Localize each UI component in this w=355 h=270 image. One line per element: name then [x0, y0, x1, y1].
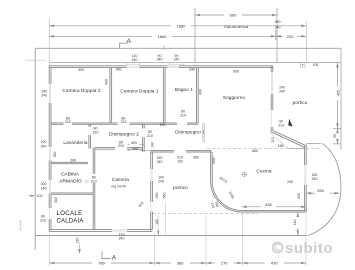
svg-text:Cucina: Cucina — [256, 168, 271, 173]
svg-text:Autorimessa: Autorimessa — [224, 24, 249, 29]
lot boundary left — [34, 48, 36, 250]
svg-text:120: 120 — [76, 238, 80, 244]
window CD1 top — [127, 66, 140, 67]
garage right wall — [276, 8, 278, 63]
svg-text:210: 210 — [121, 120, 127, 124]
diagonal wall — [271, 130, 306, 147]
window kitchen east — [305, 165, 306, 185]
svg-text:500: 500 — [233, 70, 239, 74]
svg-text:480: 480 — [275, 20, 281, 24]
circle at wall A end — [210, 156, 214, 160]
svg-text:380: 380 — [177, 260, 184, 265]
portico north wall — [151, 150, 212, 152]
svg-text:200: 200 — [212, 158, 216, 164]
svg-text:400: 400 — [199, 89, 203, 95]
arrow 180 dim down — [157, 231, 159, 236]
svg-text:100: 100 — [177, 159, 183, 163]
svg-text:400: 400 — [132, 147, 138, 151]
svg-text:210: 210 — [91, 179, 97, 183]
top wall (north, double) — [49, 66, 273, 68]
kitchen west wall — [211, 150, 213, 181]
svg-text:270: 270 — [221, 260, 228, 265]
svg-text:100: 100 — [37, 194, 43, 198]
boundary tick small — [163, 46, 165, 51]
svg-text:780: 780 — [98, 260, 105, 265]
svg-text:430: 430 — [155, 193, 159, 199]
column circle portico — [242, 172, 246, 176]
svg-text:mq 24,40: mq 24,40 — [111, 185, 126, 189]
dashed roof line portico/cucina — [207, 148, 321, 150]
dim extension line left — [48, 19, 50, 66]
svg-text:Camera: Camera — [112, 177, 130, 182]
svg-text:portico: portico — [293, 100, 308, 105]
lot boundary top — [35, 47, 341, 49]
svg-text:495: 495 — [337, 90, 341, 96]
bottom extension lines — [49, 214, 306, 267]
dim 430 kitchen — [242, 206, 307, 209]
svg-text:290: 290 — [70, 158, 76, 162]
svg-text:470: 470 — [271, 260, 278, 265]
svg-text:390: 390 — [116, 68, 122, 72]
tiny dim far left — [19, 221, 22, 229]
svg-text:Camera Doppia 2: Camera Doppia 2 — [62, 88, 101, 93]
bracket dim bagno window — [170, 63, 185, 66]
svg-text:220: 220 — [287, 34, 294, 39]
svg-text:400: 400 — [105, 79, 109, 85]
camera east wall (double) — [151, 152, 153, 232]
label Autorimessa — [215, 22, 258, 30]
svg-text:213: 213 — [278, 124, 284, 128]
svg-text:210: 210 — [118, 144, 124, 148]
lot boundary arc (rounded SE corner) — [308, 143, 341, 235]
svg-text:240: 240 — [41, 144, 47, 148]
svg-text:660: 660 — [252, 149, 258, 153]
svg-text:260: 260 — [317, 188, 324, 193]
svg-text:240: 240 — [287, 180, 293, 184]
soggiorno east wall — [271, 66, 273, 132]
svg-text:210: 210 — [65, 120, 71, 124]
window camera east — [151, 169, 152, 212]
svg-text:210: 210 — [147, 134, 153, 138]
svg-text:Camera Doppia 1: Camera Doppia 1 — [120, 89, 159, 94]
down arrow caldaia — [78, 249, 81, 254]
svg-text:140: 140 — [293, 220, 297, 226]
svg-text:95: 95 — [333, 134, 337, 138]
svg-text:110: 110 — [271, 137, 275, 143]
svg-text:CALDAIA: CALDAIA — [56, 219, 83, 225]
svg-text:240: 240 — [174, 58, 180, 62]
svg-text:400: 400 — [131, 141, 137, 145]
svg-text:240: 240 — [41, 94, 47, 98]
svg-text:240: 240 — [312, 177, 318, 181]
pillar east portico — [300, 63, 305, 67]
svg-text:400: 400 — [78, 68, 84, 72]
svg-text:140: 140 — [151, 142, 155, 148]
window bagno1 top — [168, 66, 179, 68]
window soggiorno east — [271, 72, 273, 94]
kitchen curved wall — [211, 181, 242, 212]
svg-text:360: 360 — [193, 156, 199, 160]
survey cross top-left — [25, 59, 46, 61]
window lavanderia west — [50, 147, 51, 161]
wall CD1|Bagno1 — [163, 68, 165, 123]
camera north wall — [95, 148, 143, 150]
camera west wall — [93, 148, 95, 230]
svg-text:240: 240 — [158, 180, 164, 184]
window camera south — [112, 230, 127, 231]
svg-text:Disimpegno 1: Disimpegno 1 — [175, 130, 205, 135]
subito watermark — [273, 240, 334, 257]
svg-text:240: 240 — [189, 68, 195, 72]
lavanderia south wall — [51, 162, 88, 163]
kitchen top-right stub — [306, 143, 321, 145]
svg-text:subito: subito — [285, 240, 333, 257]
svg-text:300: 300 — [53, 152, 57, 158]
svg-text:430: 430 — [297, 193, 301, 199]
door caldaia west — [49, 208, 51, 219]
dim 95 rot — [333, 128, 341, 144]
svg-text:100: 100 — [313, 63, 319, 67]
kitchen east wall — [305, 145, 307, 213]
corridor top wall — [51, 123, 198, 124]
lavanderia east wall — [89, 124, 91, 148]
camera south wall (double) — [49, 230, 152, 232]
svg-text:210: 210 — [40, 219, 46, 223]
svg-text:240: 240 — [279, 90, 285, 94]
dim 260 — [306, 192, 339, 195]
window cabina west — [50, 180, 51, 194]
dim 495 rot — [336, 63, 339, 129]
svg-text:240: 240 — [275, 25, 281, 29]
kitchen north edge solid — [288, 147, 306, 149]
svg-text:1880: 1880 — [177, 23, 187, 28]
window CD2 west — [49, 84, 51, 103]
bottom dim line — [49, 262, 306, 265]
svg-text:Disimpegno 2: Disimpegno 2 — [109, 131, 139, 136]
svg-text:ARMADIO: ARMADIO — [59, 179, 82, 185]
svg-text:190: 190 — [160, 123, 166, 127]
svg-text:300: 300 — [54, 197, 58, 203]
wall Bagno1|Soggiorno — [197, 68, 199, 123]
svg-text:A: A — [112, 254, 117, 261]
caldaia top wall — [51, 193, 93, 194]
svg-text:Soggiorno: Soggiorno — [223, 95, 246, 100]
dim hypotenuse diagonal — [270, 133, 289, 149]
svg-text:240: 240 — [157, 57, 163, 61]
svg-text:CABINA: CABINA — [61, 172, 80, 178]
dims 400 400 disimpegno2 — [128, 145, 151, 151]
bracket dim CD1 window — [127, 63, 140, 66]
svg-text:210: 210 — [180, 113, 186, 117]
lot boundary right — [340, 48, 342, 150]
wall CD2|CD1 — [110, 68, 112, 123]
extension kitchen east col — [305, 22, 307, 63]
garage left wall — [194, 8, 196, 63]
dim 600 — [195, 14, 277, 17]
dim 140 right — [297, 212, 300, 236]
section marker A top — [120, 43, 127, 48]
wall disimpegno1|soggiorno light — [203, 123, 204, 143]
section marker A bottom — [102, 252, 111, 259]
entrance triangle soggiorno — [288, 119, 292, 127]
svg-text:180: 180 — [155, 219, 159, 225]
lot boundary bottom — [35, 235, 307, 237]
svg-text:Bagno 1: Bagno 1 — [175, 87, 193, 92]
svg-text:240: 240 — [132, 58, 138, 62]
svg-text:138: 138 — [278, 144, 284, 148]
svg-text:Lavanderia: Lavanderia — [63, 140, 87, 145]
dim 1880 — [49, 25, 306, 28]
dim 1660 — [49, 30, 306, 40]
door soggiorno east — [271, 110, 273, 127]
wall disimpegno divider — [143, 124, 145, 152]
dashed roof line portico south — [153, 213, 259, 215]
svg-text:A: A — [126, 38, 131, 45]
svg-text:portico: portico — [173, 185, 188, 190]
svg-text:240: 240 — [157, 160, 163, 164]
kitchen south wall — [242, 210, 307, 212]
svg-text:1660: 1660 — [158, 34, 168, 39]
svg-text:240: 240 — [119, 237, 125, 241]
svg-text:LOCALE: LOCALE — [56, 211, 82, 217]
west wall (double) — [49, 66, 51, 232]
svg-text:600: 600 — [230, 13, 237, 18]
svg-text:140: 140 — [41, 186, 47, 190]
dim 100 west — [28, 195, 35, 197]
garage front line — [49, 62, 341, 64]
svg-text:690: 690 — [162, 193, 166, 199]
svg-text:430: 430 — [265, 202, 272, 207]
svg-text:210: 210 — [93, 130, 99, 134]
